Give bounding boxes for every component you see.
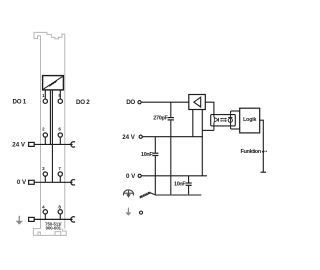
wire internal bus right	[51, 90, 53, 182]
svg-text:24 V: 24 V	[12, 142, 26, 149]
electronics box	[43, 76, 64, 90]
optocoupler U2 box	[211, 115, 236, 126]
earth row wire	[34, 218, 72, 220]
earth row connector rect	[29, 217, 35, 221]
svg-text:0 V: 0 V	[126, 173, 136, 180]
0V row wire	[34, 181, 72, 183]
terminal 6	[58, 133, 62, 137]
module bottom profile	[33, 229, 66, 236]
potential circle	[140, 211, 143, 214]
logic U3 box	[240, 108, 260, 133]
diagonal hatch marks	[50, 81, 57, 87]
0V terminal circle	[138, 174, 141, 177]
24V wire	[142, 136, 202, 138]
terminal 2 stem	[44, 137, 46, 144]
LED wire out	[213, 122, 215, 130]
module bottom slot	[38, 232, 40, 235]
capacitor C1 plates	[168, 117, 174, 119]
24V row clamp	[71, 142, 75, 147]
0V wire	[141, 175, 207, 177]
capacitor C1 wire lower	[170, 121, 172, 196]
terminal 6 stem	[59, 137, 61, 144]
driver stem right	[201, 110, 203, 176]
chassis ground hatched	[139, 192, 150, 199]
gray arrow right	[125, 208, 131, 216]
terminal 7	[58, 172, 62, 176]
capacitor C3 wire upper	[188, 176, 190, 183]
terminal 8 stem	[59, 214, 61, 220]
svg-text:DO 2: DO 2	[76, 99, 90, 106]
svg-text:10nF: 10nF	[141, 152, 153, 158]
terminal 4 stem	[44, 214, 46, 220]
svg-text:000-001: 000-001	[46, 225, 62, 230]
svg-text:270pF: 270pF	[153, 116, 168, 122]
earth symbol arrowhead	[126, 194, 131, 197]
capacitor C2 wire lower	[154, 156, 156, 195]
terminal 3 stem	[44, 176, 46, 182]
driver U1 box	[189, 95, 206, 110]
DO wire	[141, 101, 189, 103]
chassis connector wire	[150, 193, 156, 195]
capacitor C1 wire upper	[170, 102, 172, 117]
module right edge	[64, 34, 66, 229]
terminal 5 stem	[59, 90, 61, 99]
24V row connector rect	[29, 142, 35, 146]
earth row clamp	[71, 217, 75, 222]
capacitor C3 wire lower	[188, 186, 190, 195]
light arrow 1	[220, 118, 227, 120]
box diagonal	[43, 76, 63, 89]
LED return wire	[202, 129, 214, 131]
capacitor C2 plates	[152, 152, 158, 154]
driver U1 triangle	[194, 97, 201, 107]
function wire	[260, 120, 264, 172]
svg-text:DO: DO	[126, 99, 135, 106]
LED cathode bar	[218, 118, 220, 122]
svg-text:DO 1: DO 1	[13, 99, 27, 106]
capacitor C3 plates	[186, 182, 192, 184]
light arrow 2	[220, 120, 227, 122]
terminal 2	[43, 133, 47, 137]
svg-text:Funktion: Funktion	[241, 149, 262, 155]
svg-text:10nF: 10nF	[174, 182, 186, 188]
gray arrow left	[16, 216, 23, 225]
opto collector wire	[231, 110, 240, 112]
terminal 7 stem	[59, 176, 61, 182]
module bottom tab	[55, 232, 61, 236]
terminal 3	[43, 172, 47, 176]
capacitor C2 wire upper	[154, 137, 156, 153]
shield bus wire	[155, 194, 201, 196]
DO terminal circle	[138, 101, 141, 104]
function arrow	[262, 151, 265, 154]
LED wire in	[213, 115, 215, 118]
0V row clamp	[71, 180, 75, 185]
terminal 8	[58, 210, 62, 214]
phototransistor Q1	[230, 111, 232, 129]
driver stem left	[192, 110, 194, 137]
terminal 1	[43, 99, 47, 103]
svg-text:0 V: 0 V	[17, 179, 27, 186]
earth symbol circle arc	[123, 190, 134, 196]
terminal 5	[58, 99, 62, 103]
driver output wire	[205, 102, 214, 114]
24V row wire	[34, 143, 72, 145]
opto emitter wire	[231, 128, 240, 130]
24V terminal circle	[139, 135, 142, 138]
svg-text:Logik: Logik	[243, 117, 256, 123]
module top profile	[34, 32, 65, 39]
LED triangle	[214, 118, 218, 123]
0V row connector rect	[29, 180, 35, 184]
terminal 1 stem	[44, 90, 46, 99]
module top latch inner	[34, 36, 41, 39]
function wire end bar	[261, 171, 266, 173]
module left edge	[40, 36, 42, 229]
terminal 4	[43, 210, 47, 214]
svg-text:24 V: 24 V	[122, 134, 136, 141]
wire internal bus left	[49, 90, 51, 144]
